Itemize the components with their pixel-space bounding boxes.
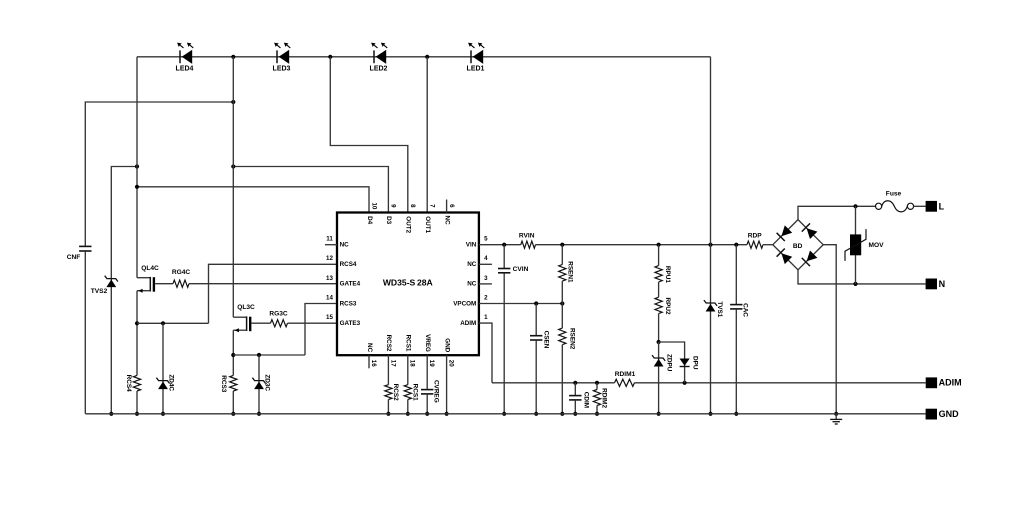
resistor RVIN	[521, 241, 536, 248]
svg-text:ZD3C: ZD3C	[264, 374, 271, 391]
wire pin18 lead	[407, 355, 409, 385]
svg-text:GATE3: GATE3	[340, 320, 361, 327]
svg-text:ZD4C: ZD4C	[168, 374, 175, 391]
svg-text:OUT2: OUT2	[405, 216, 412, 233]
svg-text:NC: NC	[443, 216, 450, 226]
svg-text:NC: NC	[340, 242, 350, 249]
junction node D3	[231, 164, 235, 168]
junction earth node	[834, 412, 838, 416]
pin 6 NC stub	[446, 200, 448, 213]
junction top rail	[231, 55, 235, 59]
wire RCS4 to rail	[136, 391, 138, 414]
wire TVS2 branch	[111, 167, 137, 414]
svg-text:RCS3: RCS3	[340, 300, 357, 307]
svg-text:LED2: LED2	[370, 66, 388, 73]
junction ZD4C top	[161, 321, 165, 325]
resistor RG4C	[173, 280, 189, 287]
svg-text:VIN: VIN	[466, 242, 477, 249]
junction TVS1 ground	[708, 412, 712, 416]
junction TVS1 top	[708, 243, 712, 247]
LED LED2	[373, 50, 375, 63]
junction RDIM2 top	[595, 381, 599, 385]
svg-text:OUT1: OUT1	[424, 216, 431, 233]
junction TVS2 ground	[109, 412, 113, 416]
junction RCS3 ground	[231, 412, 235, 416]
junction TVS2 tap on node D4	[135, 164, 139, 168]
svg-text:RPU1: RPU1	[664, 266, 671, 283]
diode BD bottom-left	[781, 253, 792, 264]
resistor RPU1	[655, 266, 662, 282]
svg-text:RSEN1: RSEN1	[566, 261, 573, 283]
op-amp U1 IC WD35-S28A body	[337, 213, 479, 356]
resistor RDIM1	[615, 379, 635, 386]
wire RPU1 upper	[658, 245, 660, 266]
svg-text:17: 17	[389, 360, 396, 367]
svg-text:GND: GND	[443, 338, 450, 352]
svg-text:7: 7	[429, 204, 436, 208]
svg-text:15: 15	[326, 314, 333, 321]
junction ZD4C ground	[161, 412, 165, 416]
svg-text:GND: GND	[939, 409, 960, 419]
svg-text:CVIN: CVIN	[513, 266, 529, 273]
junction RCS4 ground	[135, 412, 139, 416]
svg-text:11: 11	[326, 236, 333, 243]
junction DPU bottom	[683, 381, 687, 385]
node D4 tap wire	[137, 187, 369, 213]
wire RSEN1 lower	[561, 281, 563, 303]
wire QL4C gate lead	[155, 283, 173, 285]
junction VPCOM RSEN node	[560, 301, 564, 305]
svg-text:D4: D4	[366, 216, 373, 225]
wire source junction row	[137, 322, 209, 324]
transistor QL4C	[137, 277, 150, 279]
svg-text:6: 6	[448, 204, 455, 208]
wire ZDPU branch	[658, 342, 660, 414]
junction MOV bottom	[853, 282, 857, 286]
svg-text:CAC: CAC	[742, 303, 749, 317]
wire CNF to ground rail	[84, 251, 86, 414]
wire CDIM lower	[574, 400, 576, 414]
svg-text:ZDPU: ZDPU	[665, 354, 672, 372]
svg-text:RDP: RDP	[748, 232, 763, 239]
wire CNF branch top	[85, 102, 233, 246]
wire CVIN lower	[503, 273, 505, 414]
svg-text:N: N	[939, 279, 946, 289]
junction top rail	[425, 55, 429, 59]
bridge rectifier BD outline	[773, 220, 823, 270]
pin 4 NC stub	[479, 263, 492, 265]
LED LED3	[276, 50, 278, 63]
svg-text:LED3: LED3	[273, 66, 291, 73]
wire CVREG to rail	[426, 394, 428, 414]
junction CSEN top	[534, 301, 538, 305]
svg-text:D3: D3	[385, 216, 392, 225]
resistor RCS4	[133, 375, 140, 391]
varistor MOV	[855, 206, 857, 284]
wire CDIM branch	[574, 383, 576, 396]
svg-text:BD: BD	[793, 243, 803, 250]
wire RG3C to pin15 GATE3	[288, 322, 338, 324]
svg-text:RCS4: RCS4	[125, 375, 132, 392]
svg-text:2: 2	[484, 294, 488, 301]
wire QL3C source row	[233, 354, 305, 356]
diode DPU	[680, 359, 690, 366]
zener TVS2	[105, 276, 118, 282]
wire RCS3 sense to pin14	[305, 304, 337, 356]
diode BD bottom-right	[807, 251, 818, 262]
svg-text:RPU2: RPU2	[664, 297, 671, 314]
wire ADIM row right	[635, 382, 926, 384]
svg-text:RSEN2: RSEN2	[568, 328, 575, 350]
svg-text:14: 14	[326, 294, 333, 301]
junction CVIN top	[502, 243, 506, 247]
wire RDIM2 upper	[596, 383, 598, 390]
junction CDIM top	[573, 381, 577, 385]
transistor QL3C	[233, 316, 246, 318]
svg-text:NC: NC	[366, 343, 373, 353]
wire RCS1 to rail	[407, 400, 409, 414]
wire pin19 lead	[426, 355, 428, 389]
pin 3 NC stub	[479, 283, 492, 285]
junction QL4C source node	[135, 321, 139, 325]
diode BD top-right	[807, 228, 818, 239]
terminal L	[926, 201, 937, 212]
junction top rail	[328, 55, 332, 59]
capacitor CVIN	[498, 268, 510, 270]
junction QL3C source node	[231, 353, 235, 357]
wire RPU2 lower	[658, 314, 660, 342]
svg-text:L: L	[939, 202, 945, 212]
wire RCS3 to rail	[232, 391, 234, 414]
junction RPU1 top	[657, 243, 661, 247]
svg-text:DPU: DPU	[692, 356, 699, 370]
capacitor CVREG	[421, 389, 433, 391]
wire pin5 VIN lead	[479, 244, 521, 246]
svg-text:4: 4	[484, 255, 488, 262]
pin 16 NC stub	[368, 355, 370, 368]
svg-text:19: 19	[428, 360, 435, 367]
svg-text:RCS3: RCS3	[220, 375, 227, 392]
svg-text:LED1: LED1	[467, 66, 485, 73]
resistor RSEN1	[559, 265, 566, 282]
terminal GND	[926, 409, 937, 420]
junction ZD3C ground	[257, 412, 261, 416]
svg-text:RCS2: RCS2	[385, 335, 392, 352]
capacitor CDIM	[569, 395, 581, 397]
resistor RCS2	[385, 385, 392, 400]
resistor RDP	[747, 241, 763, 248]
wire RCS4 sense to pin12	[209, 264, 338, 323]
svg-text:RCS2: RCS2	[392, 384, 399, 401]
wire CAC upper	[735, 245, 737, 305]
resistor RDIM2	[593, 390, 600, 406]
svg-text:RDIM2: RDIM2	[601, 388, 608, 408]
svg-text:12: 12	[326, 255, 333, 262]
svg-text:16: 16	[370, 360, 377, 367]
wire D3 tap	[233, 167, 388, 213]
svg-text:18: 18	[409, 360, 416, 367]
wire ADIM row left	[492, 382, 615, 384]
svg-text:QL4C: QL4C	[141, 265, 159, 272]
wire RSEN2 upper	[561, 304, 563, 329]
svg-text:20: 20	[448, 360, 455, 367]
resistor RPU2	[655, 297, 662, 313]
svg-text:ADIM: ADIM	[460, 320, 476, 327]
svg-text:CDIM: CDIM	[583, 392, 590, 408]
junction node D4	[135, 185, 139, 189]
diode BD top-left	[781, 225, 792, 236]
svg-text:ADIM: ADIM	[939, 377, 962, 387]
svg-text:13: 13	[326, 275, 333, 282]
svg-text:8: 8	[409, 204, 416, 208]
wire bridge bottom to N	[798, 270, 926, 284]
svg-text:5: 5	[484, 236, 488, 243]
wire RCS2 to rail	[387, 400, 389, 414]
capacitor CNF	[79, 245, 91, 247]
wire QL3C source down	[232, 330, 234, 375]
svg-text:CVREG: CVREG	[432, 380, 439, 403]
wire CAC lower	[735, 309, 737, 414]
svg-text:TVS1: TVS1	[716, 301, 723, 317]
svg-text:VREG: VREG	[424, 334, 431, 352]
wire OUT1 to LED1 junction	[426, 57, 428, 213]
svg-text:CNF: CNF	[67, 254, 81, 261]
zener ZDPU	[652, 355, 665, 361]
wire QL4C source down	[136, 291, 138, 376]
resistor RG3C	[271, 320, 288, 327]
svg-text:RDIM1: RDIM1	[615, 371, 636, 378]
wire LED3 junction to QL3C drain	[232, 57, 234, 317]
resistor RCS3	[230, 375, 237, 391]
wire fuse to L terminal	[914, 205, 926, 207]
wire pin2 VPCOM row	[479, 303, 562, 305]
wire pin20 GND to rail	[446, 355, 448, 414]
capacitor CAC	[730, 304, 742, 306]
wire bridge top to fuse	[798, 206, 876, 219]
svg-text:RCS1: RCS1	[405, 335, 412, 352]
svg-text:RCS4: RCS4	[340, 261, 357, 268]
wire RSEN1 upper	[561, 245, 563, 265]
wire DPU branch	[659, 342, 685, 383]
svg-text:RVIN: RVIN	[519, 232, 535, 239]
wire VIN row to bridge	[536, 244, 748, 246]
wire RG4C to pin13 GATE4	[189, 283, 337, 285]
resistor RCS1	[404, 385, 411, 400]
svg-text:RCS1: RCS1	[412, 384, 419, 401]
wire CVIN upper	[503, 245, 505, 269]
svg-text:VPCOM: VPCOM	[453, 300, 476, 307]
svg-text:LED4: LED4	[176, 66, 194, 73]
wire QL3C gate lead	[251, 322, 270, 324]
wire pin17 lead	[387, 355, 389, 385]
wire CSEN lower	[535, 340, 537, 414]
junction CAC top	[734, 243, 738, 247]
wire LED4 cathode to QL4C drain	[136, 57, 138, 278]
wire TVS1 branch	[710, 57, 712, 414]
wire RSEN2 lower	[561, 345, 563, 414]
zener ZD4C	[162, 323, 164, 414]
fuse Fuse	[876, 203, 882, 209]
terminal N	[926, 279, 937, 290]
svg-text:Fuse: Fuse	[886, 191, 902, 198]
svg-text:RG4C: RG4C	[172, 269, 191, 276]
zener TVS1	[704, 300, 717, 306]
wire pin1 ADIM lead	[479, 323, 492, 383]
resistor RSEN2	[559, 328, 566, 345]
junction CNF tap	[231, 100, 235, 104]
terminal ADIM	[926, 377, 937, 388]
svg-text:WD35-S 28A: WD35-S 28A	[383, 278, 433, 288]
wire RDIM2 lower	[596, 406, 598, 414]
svg-text:CSEN: CSEN	[542, 331, 549, 349]
wire RPU mid	[658, 282, 660, 297]
junction ZD3C top	[257, 353, 261, 357]
wire top LED string rail	[137, 56, 711, 58]
junction RSEN1 top	[560, 243, 564, 247]
wire CSEN upper	[535, 304, 537, 336]
svg-text:MOV: MOV	[868, 242, 884, 249]
wire OUT2 to LED2 junction	[330, 57, 408, 213]
pin 11 NC stub	[325, 244, 337, 246]
svg-text:RG3C: RG3C	[269, 310, 288, 317]
junction ZDPU ground	[657, 412, 661, 416]
svg-text:10: 10	[370, 202, 377, 209]
zener ZD3C	[258, 355, 260, 414]
svg-text:NC: NC	[467, 281, 477, 288]
wire RDP to bridge	[763, 244, 773, 246]
junction MOV top	[853, 204, 857, 208]
svg-text:NC: NC	[467, 261, 477, 268]
svg-text:1: 1	[484, 314, 488, 321]
capacitor CSEN	[530, 335, 542, 337]
svg-text:9: 9	[390, 204, 397, 208]
LED LED4	[179, 50, 181, 63]
svg-text:TVS2: TVS2	[91, 288, 108, 295]
LED LED1	[470, 50, 472, 63]
wire bridge right to earth	[823, 245, 836, 414]
svg-text:GATE4: GATE4	[340, 281, 361, 288]
ground earth symbol	[835, 414, 837, 419]
wire ground rail	[85, 413, 925, 415]
junction ZDPU node	[657, 340, 661, 344]
svg-text:3: 3	[484, 275, 488, 282]
svg-text:QL3C: QL3C	[237, 304, 255, 311]
